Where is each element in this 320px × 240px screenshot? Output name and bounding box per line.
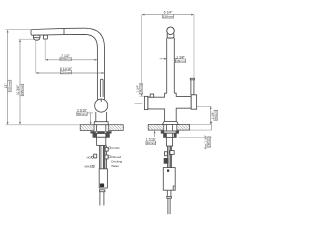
svg-text:Water: Water xyxy=(111,164,119,168)
svg-text:[36mm]: [36mm] xyxy=(146,141,156,145)
svg-text:[35mm]: [35mm] xyxy=(175,59,185,63)
svg-text:[56mm]: [56mm] xyxy=(77,112,87,116)
svg-text:[45mm]: [45mm] xyxy=(207,137,211,147)
svg-text:[158mm]: [158mm] xyxy=(162,15,174,19)
svg-text:[45mm]: [45mm] xyxy=(139,84,143,94)
svg-text:[295mm]: [295mm] xyxy=(20,84,24,96)
svg-text:[190mm]: [190mm] xyxy=(60,57,72,61)
svg-text:[70mm]: [70mm] xyxy=(214,110,218,120)
svg-text:[330mm]: [330mm] xyxy=(8,80,12,92)
svg-text:[220mm]: [220mm] xyxy=(60,70,72,74)
svg-text:COLD: COLD xyxy=(111,146,120,150)
